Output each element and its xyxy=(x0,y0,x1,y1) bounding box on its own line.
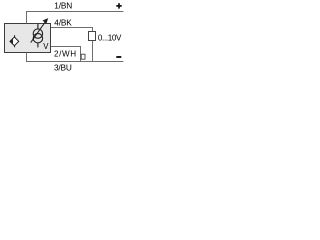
plus terminal xyxy=(116,3,121,8)
wire 2/WH (white) with drop to 3/BU rail xyxy=(51,47,81,62)
sensor body box xyxy=(5,24,51,53)
load resistor box xyxy=(89,32,96,41)
adjustment arrow through circles xyxy=(31,18,49,42)
wire 4/BK (black, analog output) xyxy=(51,28,93,32)
svg-text:V: V xyxy=(43,42,49,51)
svg-text:3/BU: 3/BU xyxy=(54,63,72,73)
svg-text:4/BK: 4/BK xyxy=(54,18,72,28)
proximity sensor diamond symbol xyxy=(10,35,19,47)
svg-text:0...10V: 0...10V xyxy=(98,34,122,43)
wire 1/BN (brown, L+) xyxy=(27,12,124,24)
wire 3/BU (blue, L-) xyxy=(27,53,124,62)
svg-text:2/WH: 2/WH xyxy=(54,49,77,58)
terminal square on 2/WH drop xyxy=(81,54,85,59)
wire load bottom to 3/BU rail xyxy=(92,41,94,62)
adjustable source symbol: two circles xyxy=(33,24,42,48)
minus terminal xyxy=(116,56,121,58)
svg-text:1/BN: 1/BN xyxy=(54,0,72,10)
